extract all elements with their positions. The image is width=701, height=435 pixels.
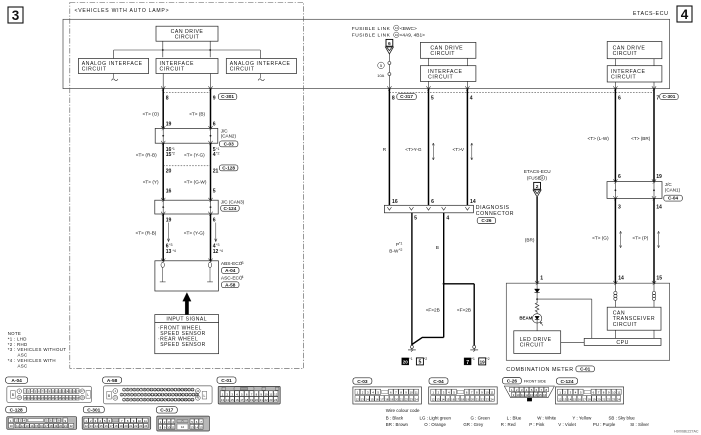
svg-text:13: 13 [221,398,225,402]
svg-text:22: 22 [607,397,611,401]
ground pin labels left (20*1 5*2) [402,358,409,365]
ground symbol left [410,345,413,348]
connector C-128 dashed line [163,165,210,167]
combination meter block outline [506,283,669,360]
svg-text:19: 19 [466,397,470,401]
svg-text:18: 18 [115,424,118,428]
svg-text:14: 14 [226,398,230,402]
wire: fusible link to fuse [388,54,390,61]
svg-text:<T> (BR): <T> (BR) [631,136,651,141]
connector C-03 pinout [353,378,372,384]
svg-text:16: 16 [375,397,379,401]
svg-text:11: 11 [491,391,494,395]
svg-text:*4: *4 [173,249,176,253]
svg-text:12: 12 [181,425,185,429]
svg-text:8: 8 [541,176,543,180]
svg-text:C-317: C-317 [160,408,173,414]
svg-text:7: 7 [656,95,659,101]
svg-text:15: 15 [446,397,450,401]
svg-text:16: 16 [166,188,172,194]
svg-text:V : Violet: V : Violet [558,422,576,427]
svg-text:17: 17 [380,397,384,401]
ground symbol right [473,345,476,348]
svg-text:G : Green: G : Green [471,416,491,421]
wire CAN2-L bold segment to C-128 [210,143,212,200]
svg-text:21: 21 [260,398,264,402]
svg-text:<T> (Y-G): <T> (Y-G) [184,231,205,236]
svg-text:11: 11 [269,392,272,396]
svg-text:22: 22 [405,397,409,401]
interface circuit block (mid) [420,66,476,82]
svg-text:20: 20 [597,397,601,401]
svg-text:B-W: B-W [389,248,399,253]
wire P/B-W: diagnosis pin5 to ground [411,213,413,345]
svg-text:12: 12 [356,397,360,401]
svg-text:18: 18 [50,424,53,428]
wire CAN2-H bold segment pin8 to J/C [162,89,164,129]
svg-text:12: 12 [274,392,278,396]
interface circuit block (right) [607,66,662,82]
svg-text:<T>Y-G: <T>Y-G [405,147,422,152]
svg-text:13: 13 [26,424,29,428]
svg-text:14: 14 [395,26,399,30]
resistor symbol [535,299,539,314]
INPUT SIGNAL box [155,315,219,354]
connector C-26 pinout (front side) [502,378,521,384]
svg-text:17: 17 [583,397,587,401]
svg-text:21: 21 [400,397,404,401]
svg-text:4: 4 [446,216,449,222]
junction dot meter [536,298,538,300]
svg-text:<T> (G-W): <T> (G-W) [184,179,207,184]
svg-text:FRONT SIDE: FRONT SIDE [524,380,547,384]
terminal symbol inside ABS-ECU left [161,262,164,267]
svg-text:12: 12 [213,249,219,255]
svg-text:23: 23 [410,397,414,401]
svg-text:12: 12 [431,397,435,401]
direction arrow on right wire [215,223,217,242]
wire Y-G bold: to diagnosis pin 6 [428,89,430,206]
svg-text:11: 11 [415,391,418,395]
svg-text:12: 12 [558,397,562,401]
svg-text:R : Red: R : Red [501,422,516,427]
wire: fuse to ETACS edge [388,76,390,89]
svg-text:11: 11 [521,393,524,397]
svg-text:4: 4 [681,7,689,22]
svg-text:20: 20 [471,397,475,401]
svg-text:5: 5 [380,63,383,68]
svg-text:10A: 10A [377,73,384,78]
svg-text:R: R [383,147,387,152]
svg-text:1: 1 [540,275,543,281]
svg-text:8: 8 [392,95,395,101]
svg-text:18: 18 [245,398,249,402]
svg-text:*4: *4 [240,275,243,279]
svg-text:L: L [87,393,89,397]
svg-text:21: 21 [213,168,219,174]
svg-text:FUSIBLE LINK: FUSIBLE LINK [352,26,391,32]
svg-text:34: 34 [395,33,399,37]
svg-text:C-01: C-01 [221,378,232,384]
svg-text:13: 13 [563,397,567,401]
wire branch right from B wire [444,283,475,285]
stubs below right interface block [614,82,616,89]
svg-text:6: 6 [213,121,216,127]
svg-text:): ) [546,175,548,180]
page number 3 box [8,7,23,23]
svg-text:14: 14 [441,397,445,401]
svg-text:21: 21 [476,397,480,401]
connector C-301 boxed label (in-line) [218,94,237,100]
svg-text:<BWC>: <BWC> [400,26,417,32]
svg-text:6: 6 [618,174,621,180]
wire: interface bus [114,49,261,51]
svg-text:22: 22 [70,424,74,428]
svg-text:11: 11 [617,391,620,395]
diode symbol on meter pin 1 [536,283,538,289]
LED drive circuit block [514,331,561,354]
svg-text:12: 12 [525,393,528,397]
svg-text:15: 15 [35,424,38,428]
connector A-58 pinout [103,377,122,383]
svg-text:ETACS-ECU: ETACS-ECU [633,11,669,17]
svg-text:16: 16 [451,397,455,401]
svg-text:17: 17 [456,397,460,401]
ETACS-ECU block U1 outline [63,19,670,88]
svg-text:18: 18 [588,397,592,401]
svg-text:C-04: C-04 [668,196,679,201]
svg-text:C-03: C-03 [224,141,235,146]
stubs between right blocks [614,59,616,66]
svg-text:LG : Light green: LG : Light green [420,416,452,421]
analog interface circuit block (right) [226,59,296,74]
svg-text:CIRCUIT: CIRCUIT [613,51,638,57]
svg-text:CIRCUIT: CIRCUIT [160,66,185,72]
svg-text:<T> (R-B): <T> (R-B) [136,231,157,236]
svg-text:19: 19 [120,424,123,428]
wire V bold: to diagnosis pin 14 [466,89,468,206]
svg-text:*3: *3 [240,261,243,265]
svg-text:<T> (Y): <T> (Y) [143,179,159,184]
svg-text:*2: *2 [172,152,175,156]
svg-text:C-317: C-317 [400,94,413,99]
svg-text:BEAM: BEAM [519,315,532,320]
stub with break symbol below left analog block [113,74,115,79]
svg-text:24: 24 [144,424,147,428]
svg-text:A-58: A-58 [225,282,236,287]
svg-text:20: 20 [124,424,127,428]
svg-text:5: 5 [414,216,417,222]
interface circuit block (left) [156,59,218,74]
wire CAN3-L bold segment to ABS-ECU [210,214,212,261]
coil symbol meter pin 15 [653,283,655,291]
svg-text:11: 11 [16,424,19,428]
wire branch to CPU [537,298,592,300]
svg-text:CIRCUIT: CIRCUIT [82,66,107,72]
svg-text:J/C: J/C [665,182,673,187]
svg-text:C-124: C-124 [224,206,237,211]
svg-text:*1 : LHD: *1 : LHD [8,336,27,341]
svg-text:22: 22 [191,398,194,402]
svg-text:CPU: CPU [616,340,628,346]
wire LED drive to CPU [561,341,585,343]
svg-text:23: 23 [612,397,616,401]
svg-text:CIRCUIT: CIRCUIT [428,75,453,81]
svg-text:19: 19 [480,360,486,365]
svg-text:14: 14 [656,204,662,210]
svg-text:<T> (B): <T> (B) [189,112,205,117]
connector C-317 pinout [156,407,177,413]
input signal arrow (black) [183,293,191,315]
svg-text:B: B [436,245,439,250]
wire: interface circuit to ETACS edge (left pair) [162,74,164,89]
svg-text:B : Black: B : Black [386,416,404,421]
svg-text:13: 13 [361,397,365,401]
stubs between mid blocks [428,58,430,65]
svg-text:13: 13 [166,249,172,255]
wire P bold: to meter pin 15 [653,198,655,283]
svg-text:C-26: C-26 [481,218,492,223]
svg-text:19: 19 [250,398,254,402]
svg-text:21: 21 [602,397,606,401]
wire B: diagnosis pin4 down [443,213,445,338]
connector dashed line right section [389,92,654,94]
svg-text:C-301: C-301 [87,407,100,413]
svg-text:H9X08E227AC: H9X08E227AC [674,430,699,434]
svg-text:P : Pink: P : Pink [529,422,545,427]
svg-text:<T> (Y-G): <T> (Y-G) [184,152,205,157]
svg-text:*3: *3 [216,243,219,247]
svg-text:L : Blue: L : Blue [507,416,522,421]
svg-text:*2: *2 [216,152,219,156]
svg-text:16: 16 [105,424,108,428]
svg-text:13: 13 [90,424,93,428]
svg-text:16: 16 [543,393,546,397]
svg-text:14: 14 [568,397,572,401]
direction arrow on left wire [168,223,170,242]
svg-text:C-128: C-128 [222,165,235,170]
svg-text:C-128: C-128 [10,407,23,413]
CPU block [584,338,661,345]
svg-text:C-124: C-124 [560,379,573,385]
ground pin labels right (7*1 19*2) [464,358,471,365]
analog interface circuit block (left) [78,59,148,74]
svg-text:CONNECTOR: CONNECTOR [476,211,514,217]
svg-text:14: 14 [618,275,624,281]
connector C-04 pinout [429,378,448,384]
fuse F5 10A symbol [388,62,391,65]
svg-text:Wire colour code: Wire colour code [386,408,420,413]
svg-text:15: 15 [370,397,374,401]
svg-text:<T> (R-B): <T> (R-B) [136,152,157,157]
svg-text:A-04: A-04 [11,378,22,384]
svg-text:*1: *1 [172,147,175,151]
svg-text:L: L [203,394,205,398]
pin marks at ETACS-ECU bottom edge (left pair) [161,86,165,89]
stubs below mid interface block [428,81,430,88]
svg-text:CIRCUIT: CIRCUIT [611,75,636,81]
svg-text:O : Orange: O : Orange [424,422,446,427]
svg-text:<VEHICLES WITH AUTO LAMP>: <VEHICLES WITH AUTO LAMP> [75,8,170,14]
svg-text:5: 5 [431,95,434,101]
svg-text:10: 10 [138,419,142,423]
wire: CAN drive to bus stubs [162,41,164,57]
connector C-128 boxed label (in-line) [219,165,238,171]
svg-text:24: 24 [415,397,419,401]
svg-text:12: 12 [85,424,88,428]
twist arrows CAN1 left [620,232,622,248]
coil symbol meter pin 14 [614,283,616,291]
svg-text:22: 22 [264,398,268,402]
svg-text:22: 22 [481,397,485,401]
svg-text:*3: *3 [169,243,172,247]
J/C (CAN2) junction block [155,128,218,143]
svg-text:10: 10 [410,391,414,395]
svg-text:*2: *2 [424,357,427,361]
svg-text:10: 10 [10,424,14,428]
connector C-301 dashed line (left pair) [163,92,210,94]
svg-text:C-301: C-301 [221,94,234,99]
svg-text:6: 6 [388,41,391,47]
svg-text:INPUT SIGNAL: INPUT SIGNAL [166,317,207,323]
svg-text:20: 20 [395,397,399,401]
svg-text:16: 16 [392,199,398,205]
svg-text:9: 9 [213,95,216,101]
svg-text:*2: *2 [399,248,402,252]
svg-text:*1: *1 [399,241,402,245]
svg-text:ETACS-ECU: ETACS-ECU [524,169,551,174]
svg-text:11: 11 [144,419,147,423]
svg-text:A-58: A-58 [107,378,118,384]
svg-text:*2: *2 [486,357,489,361]
svg-text:SPEED SENSOR: SPEED SENSOR [160,342,205,348]
svg-text:17: 17 [240,398,244,402]
svg-text:24: 24 [617,397,621,401]
svg-text:13: 13 [436,397,440,401]
svg-text:C-301: C-301 [663,94,676,99]
svg-text:20: 20 [59,424,62,428]
svg-text:3: 3 [618,204,621,210]
svg-text:A-04: A-04 [225,268,236,273]
wire CAN2-H bold segment to C-128 [162,143,164,200]
svg-text:CIRCUIT: CIRCUIT [230,66,255,72]
CAN drive circuit block (mid) [420,42,476,58]
svg-text:15: 15 [100,424,103,428]
svg-text:20: 20 [403,360,409,365]
svg-text:2: 2 [536,184,539,190]
ABS-ECU / ASC-ECU block [155,261,219,291]
svg-text:CIRCUIT: CIRCUIT [430,51,455,57]
dash-dot option box VEHICLES WITH AUTO LAMP [70,3,304,369]
svg-text:<T> (P): <T> (P) [632,236,648,241]
svg-text:20: 20 [166,168,172,174]
terminal symbol inside ABS-ECU right [208,262,211,267]
svg-text:C-26: C-26 [507,379,518,385]
svg-text:PU : Purple: PU : Purple [593,422,616,427]
wire R bold: fuse output to diagnosis pin 16 [388,89,390,206]
wire B bend to ground [412,337,444,344]
svg-text:W : White: W : White [537,416,557,421]
junction dot on B wire [443,283,445,285]
svg-text:19: 19 [390,397,394,401]
CAN transceiver circuit block [607,307,661,330]
svg-text:24: 24 [274,398,278,402]
svg-text:10: 10 [167,425,171,429]
twist arrows mid 1 [432,143,434,159]
svg-text:11: 11 [171,425,174,429]
twist arrows mid 2 [471,143,473,159]
svg-text:(CAN2): (CAN2) [221,134,237,139]
BEAM LED lamp symbol [532,314,541,323]
J/C (CAN1) junction block [607,182,662,199]
svg-text:14: 14 [366,397,370,401]
svg-text:6: 6 [431,199,434,205]
svg-text:23: 23 [269,398,273,402]
junction dots on bus [162,49,164,51]
svg-text:6: 6 [618,95,621,101]
svg-text:24: 24 [490,397,494,401]
svg-text:20: 20 [255,398,259,402]
connector C-128 pinout [6,406,27,412]
CAN drive circuit block (left) [156,26,218,41]
svg-text:19: 19 [166,121,172,127]
svg-text:12: 12 [21,424,24,428]
wire lamp to LED drive circuit [536,323,538,331]
svg-text:18: 18 [385,397,389,401]
svg-text:(CAN1): (CAN1) [665,188,681,193]
svg-text:14: 14 [30,424,33,428]
svg-text:14: 14 [95,424,98,428]
page number 4 box [677,6,692,22]
svg-text:16: 16 [578,397,582,401]
svg-text:17: 17 [110,424,113,428]
svg-text:CIRCUIT: CIRCUIT [520,343,545,349]
svg-text:10: 10 [612,391,616,395]
connector C-301 pinout [83,406,104,412]
svg-text:ASC: ASC [18,363,28,368]
svg-text:<T>V: <T>V [453,147,465,152]
CAN drive circuit block (right) [607,42,662,59]
svg-text:6: 6 [213,217,216,223]
svg-text:<T> (G): <T> (G) [592,236,609,241]
J/C (CAN3) junction block [155,200,218,214]
svg-text:*1: *1 [216,147,219,151]
svg-text:Y : Yellow: Y : Yellow [572,416,592,421]
svg-text:23: 23 [139,424,142,428]
wire L-W bold: to J/C CAN1 [614,89,616,182]
svg-text:NOTE: NOTE [8,331,21,336]
wire BR: fuse to combination meter pin 1 [536,197,538,283]
svg-text:15: 15 [573,397,577,401]
svg-text:CIRCUIT: CIRCUIT [175,35,200,41]
wire BR bold: to J/C CAN1 [653,89,655,182]
wire CAN2-L bold segment pin9 to J/C [210,89,212,129]
svg-text:19: 19 [54,424,57,428]
svg-text:(FUSE: (FUSE [527,175,541,180]
svg-text:19: 19 [656,174,662,180]
diagnosis connector C-26 box [384,205,473,213]
svg-text:C-04: C-04 [433,379,444,385]
svg-text:14: 14 [534,393,537,397]
svg-text:22: 22 [134,424,137,428]
svg-text:<4A9, 4B1>: <4A9, 4B1> [400,33,426,39]
svg-text:(BR): (BR) [525,238,535,243]
svg-text:15: 15 [539,393,542,397]
svg-text:10: 10 [264,392,268,396]
svg-text:FUSIBLE LINK: FUSIBLE LINK [352,33,391,39]
svg-text:10: 10 [485,391,489,395]
svg-text:7: 7 [466,360,469,366]
